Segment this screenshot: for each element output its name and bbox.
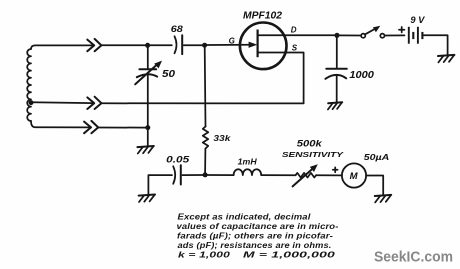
wire node C down to C3	[336, 37, 338, 67]
wire ground up and right to C4	[148, 175, 172, 194]
svg-text:values of capacitance are in m: values of capacitance are in micro-	[177, 222, 339, 231]
ground under node E	[137, 146, 153, 154]
label C1 value 50	[162, 69, 176, 80]
label battery 9V	[410, 15, 425, 25]
wire top rail: chevron to node A	[102, 44, 146, 46]
transistor Q1 MPF102 (JFET)	[240, 23, 287, 70]
node C (drain / C3 / switch)	[334, 33, 339, 38]
svg-text:Except as indicated, decimal: Except as indicated, decimal	[178, 212, 312, 221]
wire C4 to node D	[182, 174, 203, 176]
connector J1 top (double chevron)	[87, 39, 101, 51]
label R2 SENSITIVITY	[282, 150, 344, 159]
label R2 value 500k	[297, 139, 323, 149]
node D (R1 / C4 / L2 junction)	[203, 172, 208, 177]
svg-text:MPF102: MPF102	[243, 10, 282, 22]
resistor R1 33k	[203, 127, 208, 149]
label Q1 MPF102	[243, 10, 282, 22]
connector J2 middle (double chevron)	[87, 97, 101, 109]
wire middle rail: coil tap to chevron	[31, 101, 93, 104]
wire node E to ground	[147, 130, 149, 146]
ground under C3	[328, 102, 342, 109]
label meter polarity +	[333, 167, 338, 172]
ground right of battery	[438, 55, 454, 63]
wire bottom rail: coil to chevron	[35, 126, 90, 128]
label source S	[292, 44, 298, 53]
label gate G	[229, 36, 235, 45]
inductor L2 1mH	[234, 169, 262, 175]
svg-text:SENSITIVITY: SENSITIVITY	[282, 150, 344, 159]
svg-text:68: 68	[171, 24, 183, 34]
svg-text:0.05: 0.05	[166, 154, 190, 164]
label C4 value 0.05	[166, 154, 190, 164]
wire R1 to node D	[204, 149, 206, 173]
svg-text:S: S	[292, 44, 298, 53]
label L2 value 1mH	[238, 157, 258, 167]
wire middle rail: chevron to source	[102, 102, 304, 104]
wire gate lead to Q1	[207, 44, 251, 46]
wire top rail: node A to C2	[150, 44, 172, 46]
capacitor C4 0.05	[173, 165, 181, 184]
label drain D	[291, 26, 297, 35]
node A (top rail / C1 branch)	[145, 43, 150, 48]
label meter 50uA	[364, 152, 390, 162]
battery B1 9V	[409, 27, 423, 44]
svg-text:D: D	[291, 26, 297, 35]
node E (bottom rail / C1 / ground)	[145, 125, 150, 130]
wire battery to right ground	[424, 35, 448, 55]
wire meter to ground	[366, 176, 383, 195]
svg-text:M: M	[350, 171, 359, 182]
label R1 value 33k	[213, 133, 232, 143]
inductor L1 tuning coil	[27, 45, 93, 127]
svg-text:1000: 1000	[349, 70, 374, 81]
svg-text:ads (pF); resistances are in o: ads (pF); resistances are in ohms.	[178, 241, 332, 250]
wire node D to L2	[207, 174, 233, 176]
wire bottom rail: chevron to node E	[99, 127, 146, 129]
meter M1	[342, 163, 366, 187]
svg-text:33k: 33k	[213, 133, 232, 143]
svg-text:9 V: 9 V	[410, 15, 425, 25]
wire L2 to R2	[261, 174, 295, 176]
potentiometer R2 (rheostat)	[293, 164, 318, 186]
label C2 value 68	[171, 24, 183, 34]
switch S1	[361, 26, 384, 38]
caption note text	[177, 212, 339, 259]
connector J3 bottom (double chevron)	[84, 121, 98, 133]
svg-text:M = 1,000,000: M = 1,000,000	[243, 250, 336, 259]
label battery polarity +	[399, 27, 404, 32]
svg-text:k = 1,000: k = 1,000	[178, 250, 231, 259]
svg-text:500k: 500k	[297, 139, 323, 149]
capacitor C3 1000	[325, 69, 346, 102]
svg-text:G: G	[229, 36, 235, 45]
svg-text:farads (µF); others are in pic: farads (µF); others are in picofar-	[177, 231, 333, 240]
label C3 value 1000	[349, 70, 374, 81]
node coil middle tap	[29, 100, 34, 105]
wire switch to battery	[385, 34, 405, 36]
wire source lead (to middle rail)	[258, 53, 304, 104]
watermark SeekIC.com	[374, 249, 453, 265]
capacitor C2 68	[175, 35, 183, 54]
wire drain lead	[258, 34, 335, 36]
ground under meter	[375, 195, 391, 203]
node B (gate / R1 branch)	[202, 43, 207, 48]
ground left of C4	[139, 195, 155, 203]
svg-text:1mH: 1mH	[238, 157, 258, 167]
wire node C to switch	[339, 34, 361, 36]
wire top rail: C2 to node B	[184, 44, 203, 46]
wire R2 to meter	[316, 174, 342, 176]
svg-text:50: 50	[162, 69, 176, 80]
svg-text:50µA: 50µA	[364, 152, 390, 162]
variable capacitor C1 50	[135, 47, 162, 125]
svg-text:SeekIC.com: SeekIC.com	[374, 249, 453, 265]
wire node B down to R1	[204, 47, 207, 126]
